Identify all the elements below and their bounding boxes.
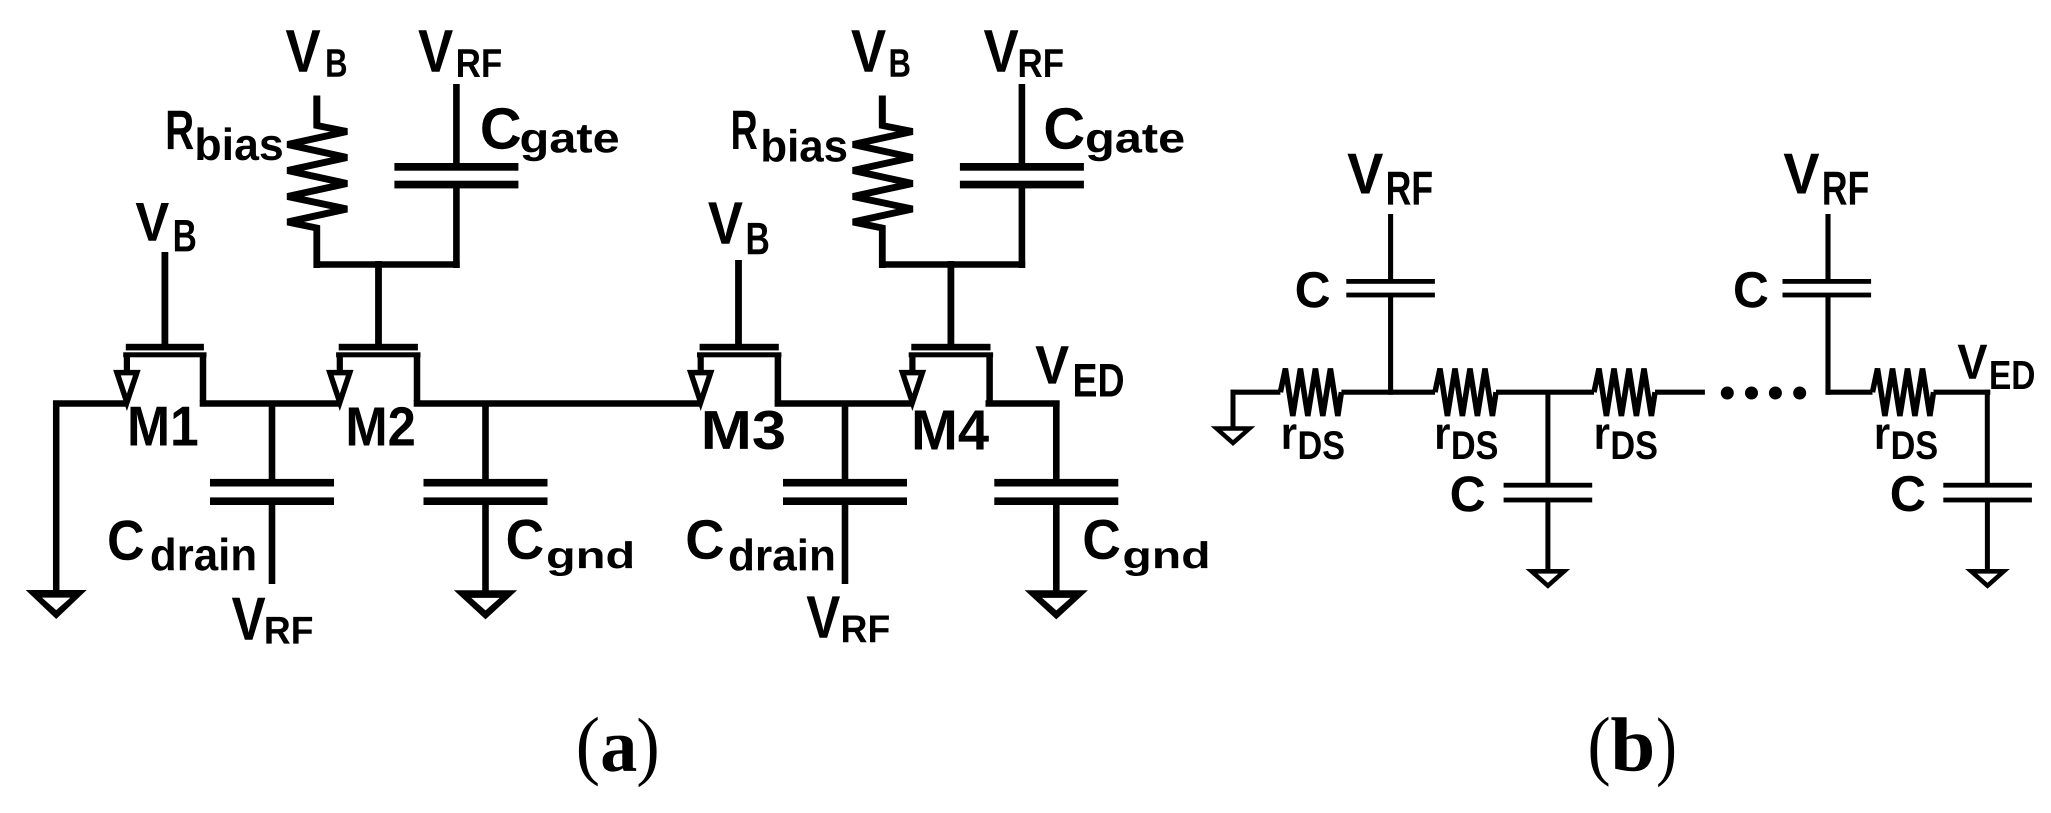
transistor M1 [113,252,206,411]
wire (b) node2 (rDS2 to rDS3) [1496,390,1594,395]
label VB (Rbias2) [851,30,909,77]
label VED (b) [1958,345,2034,389]
ground G1 (circuit a, left) [26,401,87,620]
capacitor Cgate2 [960,163,1084,188]
capacitor Cgnd1 [424,405,548,591]
wire (b) C2 corner to rDS4 [1826,390,1873,395]
resistor Rbias1 [288,96,348,269]
label Cgnd2 [1085,520,1208,577]
label Cgate1 [482,108,618,162]
label rDS2 [1437,424,1497,459]
resistor rDS1 [1280,369,1341,416]
label rDS4 [1877,424,1937,459]
wire VRF supply to Cgate1 [453,84,460,166]
wire VRF to C2 (b) [1825,214,1830,281]
caption (b) [1591,717,1675,788]
capacitor C4 (b bottom-right) [1943,483,2032,503]
resistor Rbias2 [853,96,913,269]
label VRF (Cgate2) [984,30,1063,77]
ground G3 (below Cgnd2) [1025,590,1088,619]
label C4 [1892,476,1925,512]
label Cdrain2 [688,520,834,571]
label rDS3 [1596,424,1656,459]
wire VB supply to Rbias1 [313,96,320,127]
label C2 [1735,272,1768,308]
ground G6 (below C4) [1965,569,2010,589]
label VRF (Cgate1) [418,30,501,77]
ground G5 (below C3) [1526,569,1571,589]
resistor rDS3 [1594,369,1655,416]
label Rbias2 [733,111,846,162]
transistor M2 [326,261,420,411]
label rDS1 [1284,424,1344,459]
label VB (M1 gate) [136,203,196,251]
wire (b) rDS4 to VED corner [1934,390,1991,483]
wire rail segment 1 (gnd to M1) [53,400,127,407]
capacitor C3 (b bottom-mid) [1504,483,1593,503]
ground G2 (below Cgnd1) [454,590,517,619]
wire bias junction 2 (Rbias2/Cgate2 to M4 gate) [879,261,1025,268]
label Cgnd1 [508,519,632,576]
label Rbias1 [168,111,282,161]
wire C1 to node1 [1388,296,1393,395]
label VRF (b right) [1784,154,1868,205]
capacitor Cgnd2 [994,479,1118,591]
label M1 [131,407,198,446]
resistor rDS2 [1435,369,1496,416]
wire Cgate1 bottom lead [453,186,460,268]
label C1 [1297,272,1330,308]
transistor M4 [899,261,993,411]
wire VRF supply to Cgate2 [1019,84,1026,166]
wire (b) rDS3 to dots [1655,390,1705,395]
wire VB supply to Rbias2 [879,96,886,127]
wire rail segment 5 (M4 to VED corner) [986,401,1060,481]
wire Cgate2 bottom lead [1019,186,1026,268]
capacitor C2 (b top-right) [1783,279,1872,297]
wire (b) node1 (rDS1 to rDS2) [1341,390,1435,395]
wire rail segment 2 (M1 to M2) [200,400,341,407]
label VRF (below Cdrain1) [232,598,312,644]
capacitor Cgate1 [394,163,518,188]
label VED (circuit a) [1036,346,1124,396]
ground G4 (circuit b, left) [1211,390,1256,446]
wire VRF to C1 (b) [1388,214,1393,281]
label VB (M3 gate) [708,202,768,254]
capacitor Cdrain2 [783,405,907,584]
caption (a) [579,717,657,787]
label VB (Rbias1) [286,30,346,77]
capacitor Cdrain1 [210,405,334,584]
label Cgate2 [1046,108,1184,162]
wire rail segment 4 (M3 to M4) [775,400,914,407]
resistor rDS4 [1873,369,1934,416]
label VRF (b left) [1348,154,1432,205]
label M4 [915,411,989,450]
label VRF (below Cdrain2) [807,596,889,642]
label M3 [705,411,784,450]
label Cdrain1 [109,520,254,570]
wire C4 to ground [1985,501,1990,572]
transistor M3 [687,260,781,411]
dots (ladder continuation) [1721,387,1806,400]
wire C2 down to rail corner [1825,296,1830,395]
capacitor C1 (b top-left) [1346,279,1435,297]
wire node2 down to C3 [1545,390,1550,483]
label C3 [1452,476,1485,512]
wire C3 to ground [1545,501,1550,572]
wire bias junction 1 (Rbias1/Cgate1 to M2 gate) [314,261,460,268]
label M2 [349,407,414,446]
wire rail segment 3 (M2 to M3) [414,400,702,407]
wire (b) gnd to rDS1 [1231,390,1281,395]
